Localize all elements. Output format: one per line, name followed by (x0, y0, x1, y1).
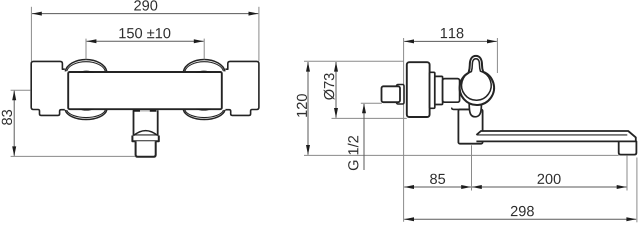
dim 290: right arrow (249, 12, 259, 16)
handle stem (center bottom) (134, 110, 158, 135)
dim 200: right arrow (617, 185, 627, 189)
G 1/2 leader extension line (361, 102, 382, 104)
escutcheon dome left bottom inner arc (67, 110, 106, 118)
label 118 (441, 28, 464, 38)
handle collar band (132, 136, 158, 142)
escutcheon dome left top outer arc (65, 60, 107, 72)
dim 290: left extension line (30, 7, 32, 61)
dim 290: dimension line (32, 13, 258, 15)
escutcheon dome left top shadow crescent (78, 71, 95, 73)
dim 150: left extension line (85, 39, 87, 60)
dim 85: right arrow (461, 185, 471, 189)
dim 150: right extension line (203, 39, 205, 60)
dim 85: left arrow (404, 185, 414, 189)
handle knob inner line (462, 59, 492, 100)
G1/2 nipple square (382, 86, 401, 102)
escutcheon dome right top inner arc (185, 62, 224, 72)
aerator (619, 141, 637, 154)
dim 150: left arrow (87, 39, 97, 43)
dim 298: right arrow (626, 217, 636, 221)
bottom shared extension line (304, 154, 619, 156)
valve stem (443, 79, 460, 103)
mixer body (68, 72, 222, 109)
dim 200: left arrow (472, 185, 482, 189)
dim 118: right arrow (487, 39, 497, 43)
dim 298: dimension line (404, 218, 636, 220)
dim 83: bottom arrow (12, 146, 16, 156)
escutcheon dome right bottom outer arc (183, 110, 225, 120)
escutcheon dome left bottom shadow crescent (78, 109, 95, 111)
dim 83: top extension line (11, 89, 31, 91)
dim 118: left arrow (404, 39, 414, 43)
label 200 (538, 174, 561, 184)
label 83 (2, 110, 12, 125)
escutcheon dome left bottom outer arc (65, 110, 107, 120)
dim Ø73: top arrow (334, 62, 338, 72)
wall plate right (225, 61, 259, 115)
escutcheon dome left top inner arc (67, 62, 106, 72)
dim 290: right extension line (258, 7, 260, 61)
dim 83: bottom extension line (11, 155, 136, 157)
flange bottom extension line (332, 117, 407, 119)
ring 2 (435, 76, 443, 104)
label G 1/2 (348, 136, 359, 170)
label 298 (511, 206, 534, 216)
dim 150: dimension line (87, 40, 204, 42)
spout top face line (477, 134, 628, 136)
dim 83: top arrow (12, 90, 16, 100)
label Ø73 (324, 73, 335, 99)
G 1/2 leader arrow (362, 103, 366, 113)
handle axis extension line (471, 145, 473, 190)
escutcheon flange (side) (407, 62, 430, 117)
escutcheon dome right bottom shadow crescent (195, 109, 212, 111)
label 85 (430, 174, 445, 184)
dim 150: right arrow (194, 39, 204, 43)
label 290 (134, 0, 157, 10)
escutcheon dome right top shadow crescent (195, 71, 212, 73)
dim 120: bottom arrow (306, 145, 310, 155)
spout outline (476, 131, 635, 141)
handle collar arc (134, 131, 158, 136)
lower valve body (458, 109, 482, 143)
handle stem top highlight dash (140, 110, 150, 111)
wall line (403, 38, 405, 222)
escutcheon dome right bottom inner arc (185, 110, 224, 118)
ring 1 (430, 72, 435, 108)
dim 120: top arrow (306, 62, 310, 72)
dim Ø73: dimension line (335, 62, 337, 118)
dim 118: dimension line (404, 40, 497, 42)
label 150 ±10 (119, 28, 170, 38)
label 120 (297, 94, 307, 117)
dim 83: dimension line (13, 91, 15, 156)
valve body skirt line under knob (452, 108, 472, 110)
dim Ø73: bottom arrow (334, 108, 338, 118)
dim 200: dimension line (472, 186, 627, 188)
G 1/2 leader line (363, 104, 365, 170)
dim 85: dimension line (404, 186, 471, 188)
handle knob outer outline (460, 56, 494, 105)
wall plate left (31, 61, 65, 115)
top shared extension line (304, 60, 404, 62)
dim 120: dimension line (307, 62, 309, 155)
dim 290: left arrow (32, 12, 42, 16)
outlet axis extension line (626, 155, 628, 190)
dim 298: left arrow (404, 217, 414, 221)
handle cap nut bump (469, 104, 481, 117)
handle stem top shadow band (133, 110, 157, 112)
nipple stem against wall (397, 85, 405, 105)
spout fill (476, 131, 635, 141)
escutcheon dome right top outer arc (183, 60, 225, 72)
handle lower cap (136, 141, 156, 157)
dim 118: right extension line (496, 38, 498, 73)
spout tip extension line (636, 158, 638, 223)
